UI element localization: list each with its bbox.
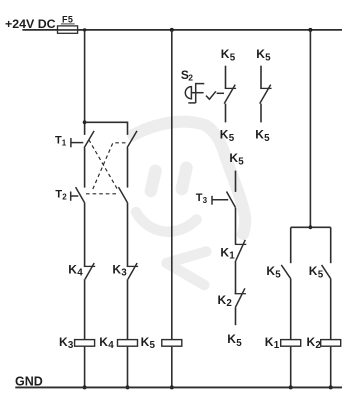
label K3 contact [112,262,127,278]
svg-text:GND: GND [15,374,43,388]
svg-text:3: 3 [68,340,74,351]
fuse F5 [58,15,78,34]
label T2 [55,189,67,202]
contact K4 NC [84,263,95,279]
node right branch K1 GND junction [289,385,293,389]
svg-text:2: 2 [226,298,232,309]
svg-text:+24V DC: +24V DC [5,17,56,31]
wire split over to branch2 [85,122,128,135]
wire GND rail [15,386,342,388]
wire branch2 K3 contact to coil K4 [127,279,129,339]
label K3 coil [59,335,74,351]
svg-text:K: K [68,262,77,276]
wire K5 stub1 upper [225,66,227,89]
contact T3 [212,192,236,208]
svg-text:K: K [59,335,68,349]
label K5 middle branch top [229,151,244,167]
label K1 contact [220,245,235,261]
wire branch2 T2 to K3 contact [127,203,129,267]
wire K5 stub1 lower [225,104,227,123]
wire top +24V rail [22,29,342,31]
coil K1 [281,340,301,347]
node right split junction [309,225,313,229]
wire K5 coil branch [171,30,173,340]
contact K5 NO right branch K2 [322,265,331,279]
label K1 coil [265,335,280,351]
svg-text:5: 5 [275,269,281,280]
svg-text:K: K [221,47,230,61]
svg-text:K: K [266,264,275,278]
svg-text:5: 5 [265,53,271,64]
svg-text:2: 2 [62,193,67,202]
wire branch1 from fuse node down [84,30,86,135]
label S2 [181,68,193,82]
contact K5 NC stub1 [224,85,236,104]
coil K3 [75,340,95,347]
label K5 middle branch bottom [227,332,242,349]
contact K5 NO right branch K1 [281,265,290,279]
label K2 coil [307,335,322,351]
wire middle branch T3 to K1 contact [235,208,237,245]
wire right branch K2 coil to GND [330,347,332,388]
svg-text:5: 5 [150,340,156,351]
node K5 branch GND junction [170,385,174,389]
svg-text:5: 5 [236,338,242,349]
contact K2 NC [235,288,246,307]
wire K5 coil to GND rail [171,347,173,388]
contact T1 pole 2 [127,131,137,148]
contact T2 pole 1 [71,187,85,203]
label K5 stub2 top [256,47,271,63]
label K2 contact [218,293,233,309]
wire middle branch K1 to K2 contact [235,261,237,294]
wire right main branch [309,30,311,227]
wire branch2 T1 to T2 [127,148,129,188]
svg-text:1: 1 [229,251,235,262]
wire branch1 coil K3 to GND rail [84,347,86,388]
contact K1 NC [235,240,246,261]
node branch1 GND junction [83,385,87,389]
wire right branch K1 coil to GND [290,347,292,388]
svg-text:5: 5 [229,133,235,144]
wire K5 stub2 upper [260,66,262,89]
contact T1 pole 1 [71,131,94,148]
label K5 contact right branch K1 [266,264,281,280]
svg-text:5: 5 [238,156,244,167]
node fuse output junction [83,28,86,31]
node right branch K2 GND junction [329,385,333,389]
label T3 [196,192,208,205]
pushbutton S2 [185,83,204,103]
wire middle branch upper [235,171,237,192]
node K5 coil branch junction [170,28,174,32]
svg-text:K: K [218,293,227,307]
wire branch1 T1 to T2 [84,148,86,188]
linkage check mark and dash S2 to K5 contact [206,91,224,99]
wire middle branch lower stub [235,308,237,326]
svg-text:K: K [309,264,318,278]
contact T2 pole 2 [119,187,128,203]
wire right branch K2 upper [330,227,332,263]
svg-text:2: 2 [188,73,193,83]
svg-text:1: 1 [274,340,280,351]
wire right branch K1 upper [290,227,292,263]
svg-text:3: 3 [203,196,208,205]
svg-text:1: 1 [62,138,67,147]
contact K3 NC [127,263,138,279]
node branch split junction [83,120,87,124]
svg-text:K: K [255,127,264,141]
svg-text:5: 5 [264,133,270,144]
svg-text:K: K [220,245,229,259]
wire right branch K2 to coil [330,279,332,340]
wire branch2 coil K4 to GND rail [127,347,129,388]
node branch2 GND junction [126,385,130,389]
svg-text:K: K [112,262,121,276]
mechanical interlock dashed linkage [86,140,126,194]
wire right branch K1 to coil [290,279,292,340]
svg-text:3: 3 [121,268,127,279]
svg-text:K: K [307,335,316,349]
wire branch1 K4 contact to coil K3 [84,279,86,339]
label T1 [55,134,67,147]
coil K5 [162,340,182,347]
svg-text:4: 4 [108,340,114,351]
svg-text:K: K [227,332,236,346]
svg-text:K: K [220,127,229,141]
svg-text:K: K [256,47,265,61]
coil K4 [118,340,138,347]
coil K2 [321,340,341,347]
svg-text:K: K [229,151,238,165]
label K5 stub2 bottom [255,127,270,143]
svg-text:5: 5 [230,53,236,64]
label K5 coil [141,335,156,351]
svg-text:K: K [99,335,108,349]
svg-text:5: 5 [318,269,324,280]
wire right split horizontal [291,226,331,228]
label K5 stub1 top [221,47,236,63]
node right branch junction [308,28,312,32]
svg-text:K: K [265,335,274,349]
wire K5 stub2 lower [260,104,262,123]
label K4 contact [68,262,83,278]
contact K5 NC stub2 [260,85,272,104]
svg-text:K: K [141,335,150,349]
wire branch1 T2 to K4 contact [84,203,86,267]
svg-text:2: 2 [315,340,321,351]
svg-text:4: 4 [77,268,83,279]
label K5 stub1 bottom [220,127,235,143]
label K4 coil [99,335,114,351]
svg-text:F5: F5 [62,15,73,25]
label K5 contact right branch K2 [309,264,324,280]
